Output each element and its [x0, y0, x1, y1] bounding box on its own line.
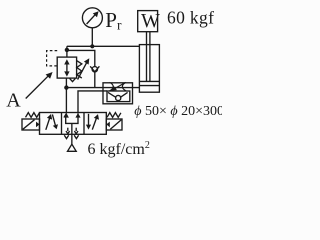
svg-text:60 kgf: 60 kgf	[167, 8, 214, 28]
position 3 arrows	[86, 114, 99, 130]
counterbalance valve body	[57, 57, 76, 78]
check valve ball	[92, 67, 97, 72]
port arrow B	[76, 113, 81, 118]
check bypass box	[107, 91, 130, 102]
tank triangle	[68, 144, 77, 151]
flow control throttle arcs	[110, 82, 126, 90]
piston rod	[146, 32, 148, 81]
weight box W	[138, 11, 158, 32]
node: relief valve top junction	[65, 48, 69, 52]
svg-text:A: A	[6, 90, 21, 112]
svg-text:W: W	[141, 10, 160, 32]
tank chevrons below valve	[64, 135, 68, 138]
wire: main pressure line	[67, 45, 140, 47]
position 2 (center) blocked ports	[63, 113, 80, 144]
flow control arrow	[111, 83, 125, 91]
node: A junction	[64, 85, 68, 89]
cylinder	[139, 45, 159, 93]
pressure gauge	[82, 8, 102, 28]
left spring	[26, 113, 40, 118]
left solenoid box	[22, 119, 40, 130]
bypass check seat	[108, 92, 128, 97]
piston	[139, 80, 159, 82]
svg-text:ϕ 50× ϕ 20×300: ϕ 50× ϕ 20×300	[134, 104, 222, 119]
wire: relief valve drop	[65, 78, 67, 113]
right spring	[107, 113, 121, 118]
right solenoid box	[106, 119, 122, 130]
bypass check ball	[116, 95, 121, 100]
wire: relief valve riser	[66, 46, 68, 57]
directional valve body	[40, 113, 107, 135]
gauge stem wire	[91, 27, 93, 46]
flow control valve body	[103, 83, 133, 104]
adjustment arrow	[78, 58, 90, 79]
svg-text:6 kgf/cm2: 6 kgf/cm2	[88, 140, 150, 158]
valve internal double arrow	[64, 59, 69, 76]
node: gauge junction	[90, 44, 94, 48]
drain chevron	[70, 78, 76, 81]
check valve seat	[90, 66, 99, 72]
position 1 arrows	[46, 114, 58, 130]
wire: pilot top line to check valve	[67, 50, 95, 66]
spring	[77, 61, 82, 78]
label A arrow	[26, 72, 53, 99]
wire: check valve to A-line	[94, 72, 96, 88]
svg-text:Pr: Pr	[105, 8, 122, 32]
dashed pilot box	[47, 51, 58, 66]
wire: B-line	[78, 91, 107, 114]
wire: A-line to cylinder	[66, 87, 139, 89]
port arrow A	[64, 113, 69, 118]
